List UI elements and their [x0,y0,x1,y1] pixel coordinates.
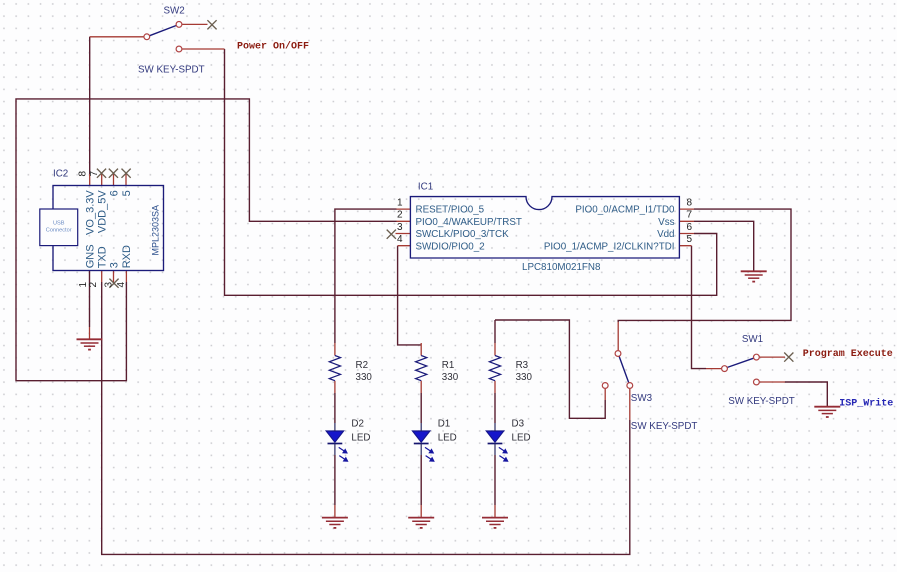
svg-text:330: 330 [516,372,533,383]
svg-text:VO_3.3V: VO_3.3V [84,190,96,235]
svg-text:R1: R1 [442,360,455,371]
svg-text:PIO0_4/WAKEUP/TRST: PIO0_4/WAKEUP/TRST [416,217,522,228]
svg-text:SWCLK/PIO0_3/TCK: SWCLK/PIO0_3/TCK [416,229,510,240]
svg-text:USB: USB [53,220,65,226]
svg-text:LED: LED [438,432,457,443]
svg-text:R3: R3 [516,360,529,371]
svg-text:SW KEY-SPDT: SW KEY-SPDT [728,396,795,407]
svg-text:SW KEY-SPDT: SW KEY-SPDT [631,421,698,432]
svg-text:R2: R2 [356,360,369,371]
svg-text:MPL2303SA: MPL2303SA [151,205,161,256]
svg-text:Vdd: Vdd [657,229,674,240]
svg-text:GNS: GNS [84,244,96,268]
svg-text:8: 8 [687,198,693,209]
svg-text:Vss: Vss [658,217,674,228]
svg-text:SWDIO/PIO0_2: SWDIO/PIO0_2 [416,241,485,252]
svg-text:IC1: IC1 [418,182,433,193]
svg-text:LED: LED [512,432,531,443]
svg-text:3: 3 [108,262,120,268]
svg-text:VDD_5V: VDD_5V [97,190,109,233]
svg-text:5: 5 [687,234,693,245]
svg-text:4: 4 [116,282,127,288]
svg-text:2: 2 [88,282,99,288]
svg-text:Power On/OFF: Power On/OFF [237,41,309,53]
svg-text:D1: D1 [438,419,451,430]
svg-text:SW3: SW3 [631,393,653,404]
svg-text:330: 330 [442,372,459,383]
svg-text:5: 5 [121,190,133,196]
svg-text:7: 7 [89,171,100,177]
svg-text:Program Execute: Program Execute [803,349,893,360]
svg-text:PIO0_0/ACMP_I1/TD0: PIO0_0/ACMP_I1/TD0 [575,205,675,216]
svg-text:IC2: IC2 [53,169,68,180]
svg-text:SW2: SW2 [164,6,185,17]
svg-text:330: 330 [356,372,373,383]
svg-text:6: 6 [108,190,120,196]
svg-text:ISP_Write: ISP_Write [839,398,893,410]
svg-text:D2: D2 [351,419,364,430]
svg-text:6: 6 [687,222,693,233]
svg-text:7: 7 [687,210,693,221]
svg-text:RESET/PIO0_5: RESET/PIO0_5 [416,205,485,216]
svg-text:3: 3 [104,282,115,288]
svg-text:3: 3 [397,222,403,233]
svg-text:RXD: RXD [121,245,133,268]
svg-text:8: 8 [78,171,89,177]
svg-text:LED: LED [351,432,370,443]
svg-text:LPC810M021FN8: LPC810M021FN8 [522,262,601,273]
svg-text:SW1: SW1 [742,334,763,345]
svg-text:2: 2 [397,210,403,221]
svg-text:D3: D3 [512,419,525,430]
svg-text:4: 4 [397,234,403,245]
svg-text:SW KEY-SPDT: SW KEY-SPDT [138,65,205,76]
svg-text:PIO0_1/ACMP_I2/CLKIN?TDI: PIO0_1/ACMP_I2/CLKIN?TDI [544,241,675,252]
svg-text:Connector: Connector [46,228,72,234]
svg-text:1: 1 [397,198,403,209]
svg-text:TXD: TXD [97,246,109,268]
